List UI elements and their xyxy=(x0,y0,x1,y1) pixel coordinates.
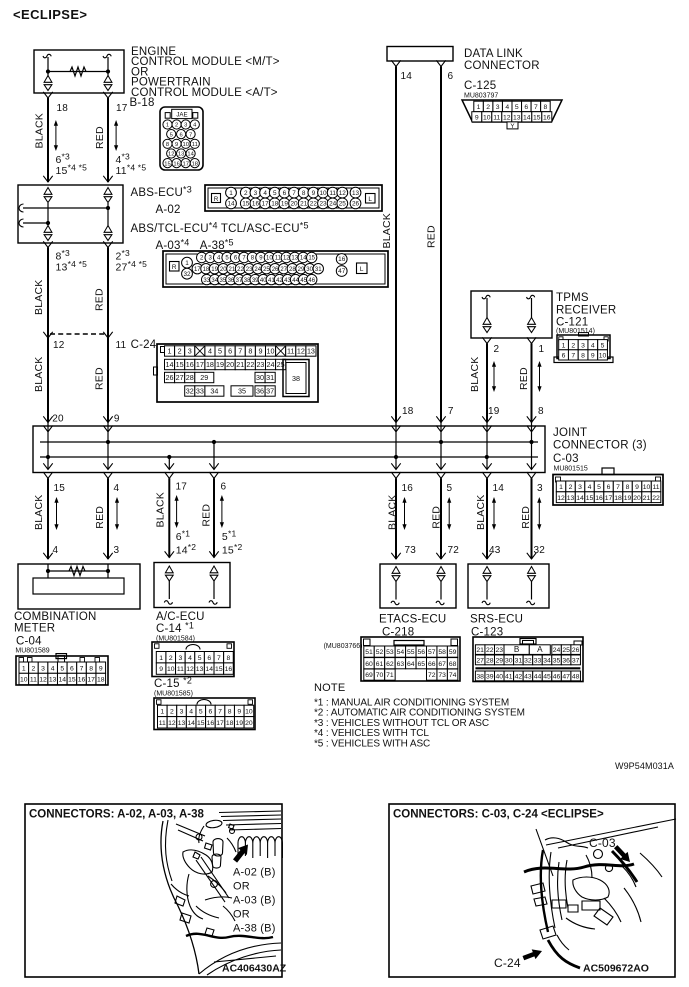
svg-text:27: 27 xyxy=(280,267,287,273)
svg-text:71: 71 xyxy=(386,672,394,679)
A/C terminal hook left xyxy=(164,601,172,604)
svg-text:*5 : VEHICLES WITH ASC: *5 : VEHICLES WITH ASC xyxy=(314,738,430,749)
ABS terminal pair bottom right xyxy=(104,226,112,241)
svg-text:BLACK: BLACK xyxy=(155,492,167,527)
svg-text:22: 22 xyxy=(486,647,494,654)
svg-text:9: 9 xyxy=(99,665,103,672)
wire BLACK DLC pin 14 to joint connector xyxy=(395,67,397,423)
svg-text:9: 9 xyxy=(159,666,163,673)
ETACS-ECU box xyxy=(380,564,456,608)
svg-text:21: 21 xyxy=(229,267,236,273)
svg-text:AC509672AO: AC509672AO xyxy=(583,963,649,975)
svg-text:32: 32 xyxy=(186,387,194,396)
ECM terminal hook right xyxy=(103,54,111,57)
svg-text:C-03: C-03 xyxy=(589,836,616,850)
svg-text:RED: RED xyxy=(94,126,106,149)
svg-text:45: 45 xyxy=(543,674,551,681)
svg-text:74: 74 xyxy=(449,672,457,679)
svg-text:70: 70 xyxy=(376,672,384,679)
arrow to A-02 connector xyxy=(233,845,248,863)
svg-text:19: 19 xyxy=(624,495,632,502)
svg-text:A-03*4 A-38*5: A-03*4 A-38*5 xyxy=(156,238,234,253)
svg-text:26: 26 xyxy=(272,267,279,273)
svg-text:8: 8 xyxy=(581,353,585,360)
svg-text:46: 46 xyxy=(308,278,315,284)
ETACS internal wire left xyxy=(395,582,397,600)
break mark lower xyxy=(19,219,24,227)
svg-text:BLACK: BLACK xyxy=(387,495,399,530)
svg-text:2: 2 xyxy=(32,665,36,672)
ABS internal bus upper xyxy=(23,207,108,209)
joint fork top inner x441 xyxy=(436,426,445,432)
svg-text:48: 48 xyxy=(572,674,580,681)
joint fork top inner x48 xyxy=(43,426,52,432)
svg-text:3: 3 xyxy=(180,709,184,716)
svg-text:8: 8 xyxy=(538,406,544,417)
svg-text:6: 6 xyxy=(70,665,74,672)
resistor termination CAN bus xyxy=(70,67,86,76)
arrow twisted pair left xyxy=(55,125,57,147)
svg-text:CONNECTORS: A-02, A-03, A-38: CONNECTORS: A-02, A-03, A-38 xyxy=(29,809,204,821)
svg-text:14: 14 xyxy=(227,201,235,208)
svg-text:3: 3 xyxy=(496,104,500,111)
svg-text:BLACK: BLACK xyxy=(33,357,45,392)
svg-text:11: 11 xyxy=(329,190,336,197)
meter internal wire right xyxy=(107,564,109,578)
svg-text:18: 18 xyxy=(402,406,414,417)
SRS terminal pair right xyxy=(528,567,536,582)
svg-text:1: 1 xyxy=(160,709,164,716)
svg-text:14: 14 xyxy=(523,114,531,121)
wire RED joint pin 5 to ETACS-ECU pin 72 xyxy=(440,478,442,559)
svg-text:12: 12 xyxy=(297,347,305,356)
svg-text:6: 6 xyxy=(228,347,232,356)
svg-text:35: 35 xyxy=(238,387,246,396)
svg-text:11: 11 xyxy=(159,720,166,727)
svg-text:30: 30 xyxy=(256,373,264,382)
svg-text:34: 34 xyxy=(543,658,551,665)
svg-text:3: 3 xyxy=(178,655,182,662)
svg-text:17: 17 xyxy=(182,161,188,167)
svg-text:11: 11 xyxy=(177,666,184,673)
svg-text:MU803797: MU803797 xyxy=(464,93,498,100)
ECM terminal pair right xyxy=(104,76,112,91)
svg-text:TPMS: TPMS xyxy=(556,292,589,304)
svg-text:26: 26 xyxy=(166,373,174,382)
svg-text:24: 24 xyxy=(267,360,275,369)
svg-text:2: 2 xyxy=(178,347,182,356)
svg-text:17: 17 xyxy=(87,677,95,684)
joint dot bus CAN-H x108 xyxy=(106,440,110,444)
svg-text:6: 6 xyxy=(221,482,227,493)
svg-text:15: 15 xyxy=(197,720,205,727)
connector fork TPMS pin 1 xyxy=(527,337,536,343)
svg-text:B-18: B-18 xyxy=(130,97,155,109)
joint connector C-03 box xyxy=(33,426,545,473)
svg-text:34: 34 xyxy=(210,387,218,396)
svg-text:3: 3 xyxy=(254,190,258,197)
svg-text:28: 28 xyxy=(186,373,194,382)
TPMS terminal hook right xyxy=(527,295,535,298)
svg-text:RED: RED xyxy=(94,367,106,390)
svg-text:20: 20 xyxy=(633,495,641,502)
svg-text:32: 32 xyxy=(534,545,546,556)
svg-text:23: 23 xyxy=(495,647,503,654)
svg-text:15: 15 xyxy=(54,483,66,494)
TPMS RECEIVER box xyxy=(471,291,552,338)
svg-text:19: 19 xyxy=(216,360,224,369)
svg-text:13: 13 xyxy=(513,114,521,121)
svg-text:24: 24 xyxy=(553,647,561,654)
svg-text:53: 53 xyxy=(386,649,394,656)
svg-text:R: R xyxy=(214,196,219,203)
svg-text:15: 15 xyxy=(215,666,223,673)
svg-text:11: 11 xyxy=(653,484,660,491)
svg-text:64: 64 xyxy=(407,661,415,668)
svg-text:14: 14 xyxy=(59,677,67,684)
svg-text:31: 31 xyxy=(315,267,322,273)
svg-text:14: 14 xyxy=(576,495,584,502)
joint fork bottom inner x214 xyxy=(209,463,218,469)
joint fork top outer x531.5 xyxy=(527,416,536,422)
TPMS terminal pair right xyxy=(528,318,536,333)
joint fork top outer x441 xyxy=(436,416,445,422)
joint fork bottom outer x48 xyxy=(43,472,52,478)
joint dot bus CAN-H x531.5 xyxy=(529,440,533,444)
svg-text:8: 8 xyxy=(248,347,252,356)
svg-text:6: 6 xyxy=(283,190,287,197)
svg-text:6: 6 xyxy=(179,132,182,138)
svg-text:12: 12 xyxy=(168,152,174,158)
svg-text:JAE: JAE xyxy=(176,112,187,119)
svg-text:20: 20 xyxy=(220,267,227,273)
connector fork DLC pin 6 xyxy=(436,60,445,66)
svg-text:8: 8 xyxy=(227,655,231,662)
junction dot left bus xyxy=(46,221,50,225)
joint fork bottom outer x108 xyxy=(103,472,112,478)
svg-text:4: 4 xyxy=(51,665,55,672)
ETACS internal wire right xyxy=(440,582,442,600)
svg-text:RED: RED xyxy=(94,506,106,529)
svg-text:2: 2 xyxy=(494,344,500,355)
svg-text:22: 22 xyxy=(310,201,318,208)
arrow to C-03 xyxy=(614,845,630,862)
svg-text:13: 13 xyxy=(178,152,184,158)
joint dot bus CAN-H x441 xyxy=(439,440,443,444)
svg-text:30: 30 xyxy=(505,658,513,665)
panel CONNECTORS C-03 C-24 xyxy=(389,804,675,977)
connector fork ECM pin 18 xyxy=(43,92,52,98)
svg-text:14: 14 xyxy=(187,720,195,727)
svg-text:15: 15 xyxy=(242,201,250,208)
svg-text:12: 12 xyxy=(168,720,176,727)
joint fork bottom inner x487 xyxy=(482,463,491,469)
svg-text:C-24: C-24 xyxy=(494,956,521,970)
connector fork C-24 right xyxy=(103,332,112,338)
svg-text:14: 14 xyxy=(205,666,213,673)
svg-text:13: 13 xyxy=(567,495,575,502)
arrow twisted pair right xyxy=(115,125,117,147)
svg-text:14: 14 xyxy=(493,483,505,494)
svg-text:24: 24 xyxy=(254,267,261,273)
svg-text:8: 8 xyxy=(626,484,630,491)
svg-text:A-38 (B): A-38 (B) xyxy=(233,923,276,935)
svg-text:15: 15 xyxy=(533,114,541,121)
svg-text:3: 3 xyxy=(537,483,543,494)
svg-text:(MU801514): (MU801514) xyxy=(556,328,595,335)
svg-text:29: 29 xyxy=(298,267,305,273)
joint dot bus CAN-L x169.3 xyxy=(167,455,171,459)
connector face C-125 xyxy=(462,100,562,130)
svg-text:68: 68 xyxy=(449,661,457,668)
wire RED DLC pin 6 to joint connector xyxy=(440,67,442,423)
svg-text:58: 58 xyxy=(438,649,446,656)
svg-text:4: 4 xyxy=(189,709,193,716)
svg-text:14: 14 xyxy=(401,71,413,82)
svg-text:A/C-ECU: A/C-ECU xyxy=(156,611,205,623)
svg-text:16: 16 xyxy=(225,666,233,673)
svg-text:17: 17 xyxy=(176,482,188,493)
svg-text:10: 10 xyxy=(267,347,275,356)
joint fork bottom outer x396 xyxy=(391,472,400,478)
svg-text:20: 20 xyxy=(245,720,253,727)
svg-text:12: 12 xyxy=(53,340,65,351)
svg-text:3: 3 xyxy=(188,347,192,356)
svg-text:32: 32 xyxy=(524,658,532,665)
connector fork ABS bottom left xyxy=(43,241,52,247)
svg-text:1: 1 xyxy=(539,344,545,355)
svg-text:42: 42 xyxy=(515,674,523,681)
svg-text:9: 9 xyxy=(237,709,241,716)
svg-text:16: 16 xyxy=(595,495,603,502)
svg-text:18: 18 xyxy=(271,201,279,208)
svg-text:56: 56 xyxy=(417,649,425,656)
svg-text:7: 7 xyxy=(217,655,221,662)
joint through wire x441 xyxy=(440,423,442,470)
svg-text:W9P54M031A: W9P54M031A xyxy=(615,761,674,771)
svg-text:5: 5 xyxy=(447,483,453,494)
wire BLACK joint pin 16 to ETACS-ECU pin 73 xyxy=(395,478,397,559)
svg-text:18: 18 xyxy=(192,161,198,167)
svg-text:Y: Y xyxy=(510,123,514,130)
svg-text:9: 9 xyxy=(635,484,639,491)
svg-text:2: 2 xyxy=(571,342,575,349)
svg-text:SRS-ECU: SRS-ECU xyxy=(470,614,523,626)
svg-text:51: 51 xyxy=(365,649,373,656)
joint fork bottom inner x531.5 xyxy=(527,463,536,469)
connector fork ABS top right xyxy=(103,176,112,182)
break mark upper xyxy=(19,204,24,212)
svg-text:5: 5 xyxy=(218,347,222,356)
svg-text:3: 3 xyxy=(578,484,582,491)
svg-text:17: 17 xyxy=(196,360,204,369)
joint fork bottom inner x441 xyxy=(436,463,445,469)
connector face B-18 (JAE) xyxy=(160,107,203,170)
svg-text:43: 43 xyxy=(489,545,501,556)
wire CAN-L BLACK ECM pin 18 to ABS-ECU xyxy=(47,98,49,182)
svg-text:21: 21 xyxy=(236,360,244,369)
svg-text:5: 5 xyxy=(170,132,173,138)
panel CONNECTORS A-02 A-03 A-38 xyxy=(25,804,282,977)
svg-text:16: 16 xyxy=(338,256,346,263)
svg-text:11: 11 xyxy=(30,677,37,684)
ECM terminal hook left xyxy=(43,54,51,57)
joint through wire x396 xyxy=(395,423,397,470)
ECM internal wire right xyxy=(107,57,109,76)
svg-text:12: 12 xyxy=(186,666,194,673)
joint through wire x531.5 xyxy=(531,423,533,470)
svg-text:3: 3 xyxy=(114,545,120,556)
svg-text:73: 73 xyxy=(405,545,417,556)
joint fork bottom inner x169.3 xyxy=(165,463,174,469)
svg-text:5: 5 xyxy=(515,104,519,111)
A/C-ECU box xyxy=(154,563,230,608)
svg-text:CONNECTOR (3): CONNECTOR (3) xyxy=(553,440,647,452)
svg-text:C-121: C-121 xyxy=(556,317,588,329)
A/C terminal pair left xyxy=(165,566,173,581)
svg-text:RED: RED xyxy=(520,506,532,529)
wire BLACK joint pin 15 to combination meter pin 4 xyxy=(47,478,49,559)
A/C terminal hook right xyxy=(209,601,217,604)
svg-text:CONTROL MODULE <M/T>: CONTROL MODULE <M/T> xyxy=(131,56,280,68)
svg-text:52: 52 xyxy=(376,649,384,656)
svg-text:21: 21 xyxy=(643,495,651,502)
connector face C-03 xyxy=(553,468,663,505)
ECM terminal pair left xyxy=(44,76,52,91)
svg-text:15: 15 xyxy=(176,360,184,369)
wire BLACK joint pin 14 to SRS-ECU pin 43 xyxy=(486,478,488,559)
svg-text:9: 9 xyxy=(175,142,178,148)
svg-text:RED: RED xyxy=(201,504,213,527)
svg-text:10: 10 xyxy=(167,666,175,673)
svg-text:72: 72 xyxy=(448,545,460,556)
svg-text:65: 65 xyxy=(417,661,425,668)
svg-text:15: 15 xyxy=(586,495,594,502)
TPMS internal wire left xyxy=(486,298,488,318)
svg-text:37: 37 xyxy=(572,658,580,665)
svg-text:28: 28 xyxy=(486,658,494,665)
svg-text:8: 8 xyxy=(89,665,93,672)
joint branch wire x169.3 xyxy=(168,457,170,470)
connector face A-03/A-38 xyxy=(163,251,388,287)
svg-text:OR: OR xyxy=(233,909,250,921)
svg-text:60: 60 xyxy=(365,661,373,668)
svg-text:38: 38 xyxy=(476,674,484,681)
svg-text:20: 20 xyxy=(226,360,234,369)
svg-text:46: 46 xyxy=(553,674,561,681)
svg-text:54: 54 xyxy=(397,649,405,656)
svg-text:36: 36 xyxy=(256,387,264,396)
svg-text:12: 12 xyxy=(39,677,47,684)
svg-text:BLACK: BLACK xyxy=(469,357,481,392)
svg-text:16: 16 xyxy=(186,360,194,369)
svg-text:16: 16 xyxy=(173,161,179,167)
svg-text:COMBINATION: COMBINATION xyxy=(14,611,97,623)
svg-text:A-02: A-02 xyxy=(156,204,181,216)
joint fork top inner x487 xyxy=(482,426,491,432)
svg-text:31: 31 xyxy=(515,658,523,665)
svg-text:10: 10 xyxy=(20,677,28,684)
COMBINATION METER box xyxy=(18,564,140,609)
svg-text:9: 9 xyxy=(475,114,479,121)
connector face A-02 xyxy=(205,185,382,211)
arrow twisted pair TPMS left xyxy=(493,366,495,388)
svg-text:18: 18 xyxy=(203,267,210,273)
svg-text:37: 37 xyxy=(266,387,274,396)
junction dot left xyxy=(46,569,50,573)
svg-text:20: 20 xyxy=(290,201,298,208)
svg-text:11: 11 xyxy=(275,256,282,262)
TPMS internal wire right xyxy=(531,298,533,318)
svg-text:4: 4 xyxy=(188,655,192,662)
ETACS terminal hook right xyxy=(436,601,444,604)
joint dot bus CAN-L x48 xyxy=(46,455,50,459)
svg-text:2: 2 xyxy=(486,104,490,111)
svg-text:4: 4 xyxy=(588,484,592,491)
svg-text:16: 16 xyxy=(78,677,86,684)
junction dot left xyxy=(46,69,50,73)
svg-text:62: 62 xyxy=(386,661,394,668)
wire CAN-H RED ABS to joint connector xyxy=(107,248,109,423)
svg-text:15: 15 xyxy=(164,161,170,167)
svg-text:16: 16 xyxy=(402,483,414,494)
svg-text:17: 17 xyxy=(216,720,224,727)
svg-text:2: 2 xyxy=(170,709,174,716)
svg-text:1: 1 xyxy=(166,123,169,129)
joint fork bottom outer x487 xyxy=(482,472,491,478)
svg-text:26: 26 xyxy=(352,201,360,208)
svg-text:11: 11 xyxy=(493,114,500,121)
joint bus CAN-H xyxy=(40,441,538,443)
svg-text:29: 29 xyxy=(495,658,503,665)
svg-text:MU801515: MU801515 xyxy=(554,466,588,473)
wire RED joint pin 3 to SRS-ECU pin 32 xyxy=(531,478,533,559)
wire BLACK TPMS pin 2 to joint connector xyxy=(486,344,488,423)
connector face C-218 xyxy=(361,637,460,681)
connector face C-24 xyxy=(154,344,319,402)
joint fork top outer x396 xyxy=(391,416,400,422)
svg-text:12: 12 xyxy=(503,114,511,121)
svg-text:32: 32 xyxy=(183,271,191,278)
svg-text:7: 7 xyxy=(238,347,242,356)
joint dot bus CAN-H x214 xyxy=(212,440,216,444)
svg-text:57: 57 xyxy=(428,649,436,656)
connector fork ABS top left xyxy=(43,176,52,182)
svg-text:7: 7 xyxy=(616,484,620,491)
svg-text:8: 8 xyxy=(166,142,169,148)
svg-text:4: 4 xyxy=(591,342,595,349)
connector face C-121 xyxy=(554,333,613,363)
svg-text:21: 21 xyxy=(300,201,308,208)
svg-text:41: 41 xyxy=(505,674,513,681)
svg-text:A-02 (B): A-02 (B) xyxy=(233,867,276,879)
svg-text:6: 6 xyxy=(448,71,454,82)
joint bus CAN-L xyxy=(40,456,538,458)
svg-text:13: 13 xyxy=(352,190,360,197)
svg-text:10: 10 xyxy=(245,709,253,716)
car illustration engine bay xyxy=(161,811,282,975)
wire BLACK joint pin 17 to A/C-ECU xyxy=(168,478,170,557)
connector fork ECM pin 17 xyxy=(103,92,112,98)
joint fork bottom outer x169.3 xyxy=(165,472,174,478)
svg-text:10: 10 xyxy=(643,484,651,491)
wire CAN-L BLACK ABS to joint connector xyxy=(47,248,49,423)
ETACS terminal pair right xyxy=(437,567,445,582)
wire RED joint pin 6 to A/C-ECU xyxy=(213,478,215,557)
svg-text:ETACS-ECU: ETACS-ECU xyxy=(379,614,446,626)
svg-text:63: 63 xyxy=(397,661,405,668)
SRS internal wire left xyxy=(486,582,488,600)
